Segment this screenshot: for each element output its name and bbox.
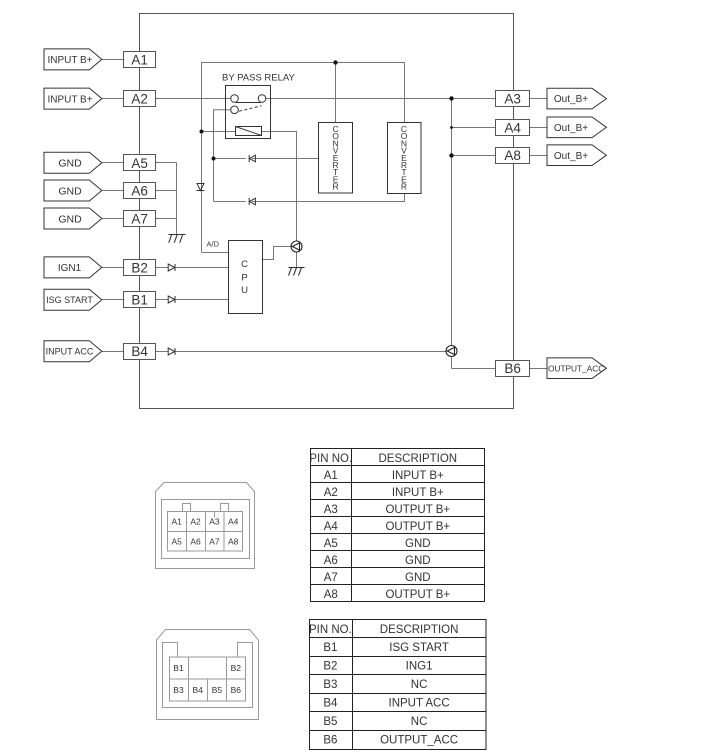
pin table A text (309, 453, 457, 601)
wire output bus vertical lower below circle (451, 357, 453, 369)
svg-text:A8: A8 (228, 537, 239, 547)
pin box A4 (496, 120, 530, 136)
svg-text:A4: A4 (504, 120, 521, 135)
wire upper diode line to converter1 (214, 158, 246, 160)
wire relay contact arm to left (214, 110, 231, 202)
output flag Out_B+ (A3) (547, 88, 606, 109)
pin box A6 (124, 183, 156, 199)
converter U3 (388, 123, 422, 194)
svg-text:B4: B4 (131, 344, 148, 359)
svg-text:CONVERTER: CONVERTER (401, 124, 408, 192)
wire top supply bus (201, 184, 203, 253)
wire A8 box to Out_B+ flag (530, 155, 547, 157)
svg-text:OUTPUT B+: OUTPUT B+ (385, 504, 450, 516)
svg-text:B6: B6 (231, 685, 242, 695)
svg-text:ING1: ING1 (406, 661, 433, 673)
diode D6 after B4 (right) (168, 348, 175, 355)
svg-text:Out_B+: Out_B+ (554, 151, 588, 162)
diode D5 after B1 (right) (168, 296, 175, 303)
svg-text:GND: GND (405, 555, 431, 567)
svg-text:DESCRIPTION: DESCRIPTION (379, 453, 458, 465)
svg-text:Out_B+: Out_B+ (554, 123, 588, 134)
svg-text:INPUT B+: INPUT B+ (47, 94, 92, 105)
svg-text:Out_B+: Out_B+ (554, 94, 588, 105)
wire A4 box to Out_B+ flag (530, 127, 547, 129)
wire B4 to diode (156, 351, 169, 353)
svg-text:GND: GND (58, 213, 82, 225)
pin box A7 (124, 211, 156, 227)
main unit boundary box (140, 14, 514, 409)
svg-text:A8: A8 (504, 148, 521, 163)
pin box B6 (496, 361, 530, 377)
diode D1 on supply line (down) (197, 184, 205, 191)
pin box B1 (124, 292, 156, 308)
svg-text:IGN1: IGN1 (58, 263, 82, 274)
wire transistor circle to ground (296, 252, 298, 268)
svg-text:PIN NO.: PIN NO. (309, 453, 352, 465)
pin box A8 (496, 148, 530, 164)
svg-text:A6: A6 (190, 537, 201, 547)
svg-text:B1: B1 (131, 293, 148, 308)
input flag GND (A5) (44, 152, 102, 173)
wire IGN1 flag to B2 box (102, 267, 124, 269)
svg-text:A7: A7 (131, 211, 148, 226)
svg-text:A3: A3 (504, 92, 521, 107)
svg-text:A1: A1 (131, 52, 148, 67)
bypass relay K1 (226, 86, 271, 139)
wire coil feed from bus (202, 131, 236, 133)
svg-text:B1: B1 (173, 663, 184, 673)
wire GND flag to A5 box (102, 162, 124, 164)
svg-text:B2: B2 (323, 661, 337, 673)
wire A2 flag to A2 box (102, 98, 124, 100)
wire to B6 box (452, 368, 496, 370)
svg-text:INPUT B+: INPUT B+ (47, 55, 92, 66)
svg-text:B5: B5 (212, 685, 223, 695)
wire upper diode line right part (252, 158, 319, 160)
pin box A1 (124, 52, 156, 68)
pin table B text (309, 624, 458, 747)
connector A housing (156, 483, 255, 569)
wire GND flag to A7 box (102, 218, 124, 220)
svg-text:A/D: A/D (207, 240, 220, 249)
wire B6 box to OUTPUT_ACC flag (530, 368, 547, 370)
svg-text:A7: A7 (209, 537, 220, 547)
svg-text:B2: B2 (131, 261, 148, 276)
wire output bus vertical upper (451, 99, 453, 346)
svg-text:B5: B5 (323, 716, 337, 728)
wire ISG START flag to B1 box (102, 299, 124, 301)
svg-text:CONVERTER: CONVERTER (332, 124, 339, 192)
svg-text:ISG START: ISG START (389, 642, 449, 654)
ground G2 (chassis) (289, 268, 305, 276)
svg-text:OUTPUT_ACC: OUTPUT_ACC (548, 363, 604, 373)
svg-text:A1: A1 (171, 517, 182, 527)
wire GND flag to A6 box (102, 190, 124, 192)
svg-text:A5: A5 (171, 537, 182, 547)
pin table A (311, 449, 485, 602)
ground G1 (chassis) (169, 235, 186, 243)
svg-text:NC: NC (411, 679, 428, 691)
pin table B (310, 620, 487, 750)
svg-text:C: C (241, 259, 248, 270)
wire gnd bus vertical (176, 163, 178, 235)
svg-text:A4: A4 (324, 521, 339, 533)
svg-text:A4: A4 (228, 517, 239, 527)
svg-text:B6: B6 (504, 361, 521, 376)
input flag ISG START (B1) (44, 289, 102, 310)
svg-text:GND: GND (58, 185, 82, 197)
wire A2 row from A2 box to relay contact (156, 98, 231, 100)
wire B4 diode to acc circle (175, 351, 446, 353)
wire CPU output to transistor circle (263, 247, 291, 260)
wire B2 to diode (156, 267, 169, 269)
svg-text:A6: A6 (324, 555, 338, 567)
svg-text:INPUT ACC: INPUT ACC (389, 698, 450, 710)
wire B1 diode to CPU (175, 299, 229, 301)
wire A3 box to Out_B+ flag (530, 98, 547, 100)
svg-text:B3: B3 (173, 685, 184, 695)
wire A5 to gnd bus (156, 162, 177, 164)
wire converter1 top pin (335, 63, 337, 123)
junction dot A4 row output bus (450, 126, 453, 129)
diode D2 upper converter line (left) (249, 155, 255, 162)
svg-text:A3: A3 (209, 517, 220, 527)
wire A2 row from relay contact to A3 box (266, 98, 496, 100)
svg-text:NC: NC (411, 716, 428, 728)
wire lower diode line left part (214, 201, 246, 203)
pin box A2 (124, 91, 156, 107)
diode D3 lower converter line (left) (249, 198, 255, 205)
svg-text:A2: A2 (324, 487, 338, 499)
svg-text:A2: A2 (131, 92, 148, 107)
input flag GND (A7) (44, 208, 102, 229)
converter U2 (319, 123, 353, 194)
svg-text:P: P (241, 272, 247, 283)
svg-text:GND: GND (58, 158, 82, 170)
connector B pin labels (173, 663, 241, 695)
wire A/D into CPU (202, 252, 229, 254)
pin box A5 (124, 155, 156, 171)
svg-text:U: U (241, 285, 248, 296)
svg-text:OUTPUT_ACC: OUTPUT_ACC (380, 735, 458, 747)
svg-text:A5: A5 (131, 156, 148, 171)
wire A6 to gnd bus (156, 190, 177, 192)
output flag OUTPUT_ACC (B6) (547, 358, 606, 379)
input flag INPUT B+ (A1) (44, 49, 102, 70)
wire A1 flag to A1 box (102, 59, 124, 61)
output flag Out_B+ (A8) (547, 145, 606, 166)
svg-text:B2: B2 (231, 663, 242, 673)
svg-text:A5: A5 (324, 538, 338, 550)
input flag INPUT ACC (B4) (44, 341, 102, 362)
junction dot A3 row output bus (449, 96, 453, 100)
connector B housing (157, 630, 259, 720)
svg-text:A3: A3 (324, 504, 338, 516)
svg-text:B1: B1 (323, 642, 337, 654)
svg-text:GND: GND (405, 538, 431, 550)
input flag GND (A6) (44, 180, 102, 201)
wire B1 to diode (156, 299, 169, 301)
svg-text:A7: A7 (324, 572, 338, 584)
svg-text:PIN NO.: PIN NO. (309, 624, 352, 636)
svg-text:ISG START: ISG START (46, 295, 93, 305)
op-amp CPU U1 (229, 241, 263, 314)
diode D4 after B2 (right) (168, 264, 175, 271)
transistor Q1 (circle with arrow) (291, 241, 302, 252)
wire B2 diode to CPU (175, 267, 229, 269)
wire A4 box to bus (452, 127, 496, 129)
svg-text:A2: A2 (190, 517, 201, 527)
wire INPUT ACC flag to B4 box (102, 351, 124, 353)
wire A7 to gnd bus (156, 218, 177, 220)
svg-text:INPUT B+: INPUT B+ (392, 487, 444, 499)
wire coil to transistor (262, 132, 297, 242)
svg-text:B4: B4 (323, 698, 338, 710)
svg-text:B4: B4 (192, 685, 203, 695)
svg-text:INPUT B+: INPUT B+ (392, 470, 444, 482)
junction dot upper diode line (212, 157, 216, 161)
svg-text:INPUT ACC: INPUT ACC (46, 347, 94, 357)
junction dot top bus / converter1 (333, 60, 337, 64)
pin box B4 (124, 344, 156, 360)
svg-text:DESCRIPTION: DESCRIPTION (380, 624, 459, 636)
junction dot A8 row output bus (449, 153, 453, 157)
svg-text:BY PASS RELAY: BY PASS RELAY (222, 73, 296, 84)
input flag IGN1 (B2) (44, 257, 102, 278)
svg-text:B3: B3 (323, 679, 337, 691)
svg-text:GND: GND (405, 572, 431, 584)
output flag Out_B+ (A4) (547, 117, 606, 138)
pin box B2 (124, 260, 156, 276)
transistor Q2 (circle with arrow) on ACC line (446, 346, 457, 357)
svg-text:OUTPUT B+: OUTPUT B+ (385, 589, 450, 601)
svg-text:A1: A1 (324, 470, 338, 482)
svg-text:A8: A8 (324, 589, 338, 601)
wire lower diode line to converter2 bottom (252, 194, 405, 202)
wire A8 box to bus (452, 155, 496, 157)
svg-text:A6: A6 (131, 184, 148, 199)
svg-text:OUTPUT B+: OUTPUT B+ (385, 521, 450, 533)
svg-text:B6: B6 (323, 735, 337, 747)
junction dot coil feed (200, 130, 204, 134)
connector A pin labels (171, 517, 238, 547)
pin box A3 (496, 91, 530, 107)
input flag INPUT B+ (A2) (44, 88, 102, 109)
wire top bus horizontal (202, 63, 405, 184)
